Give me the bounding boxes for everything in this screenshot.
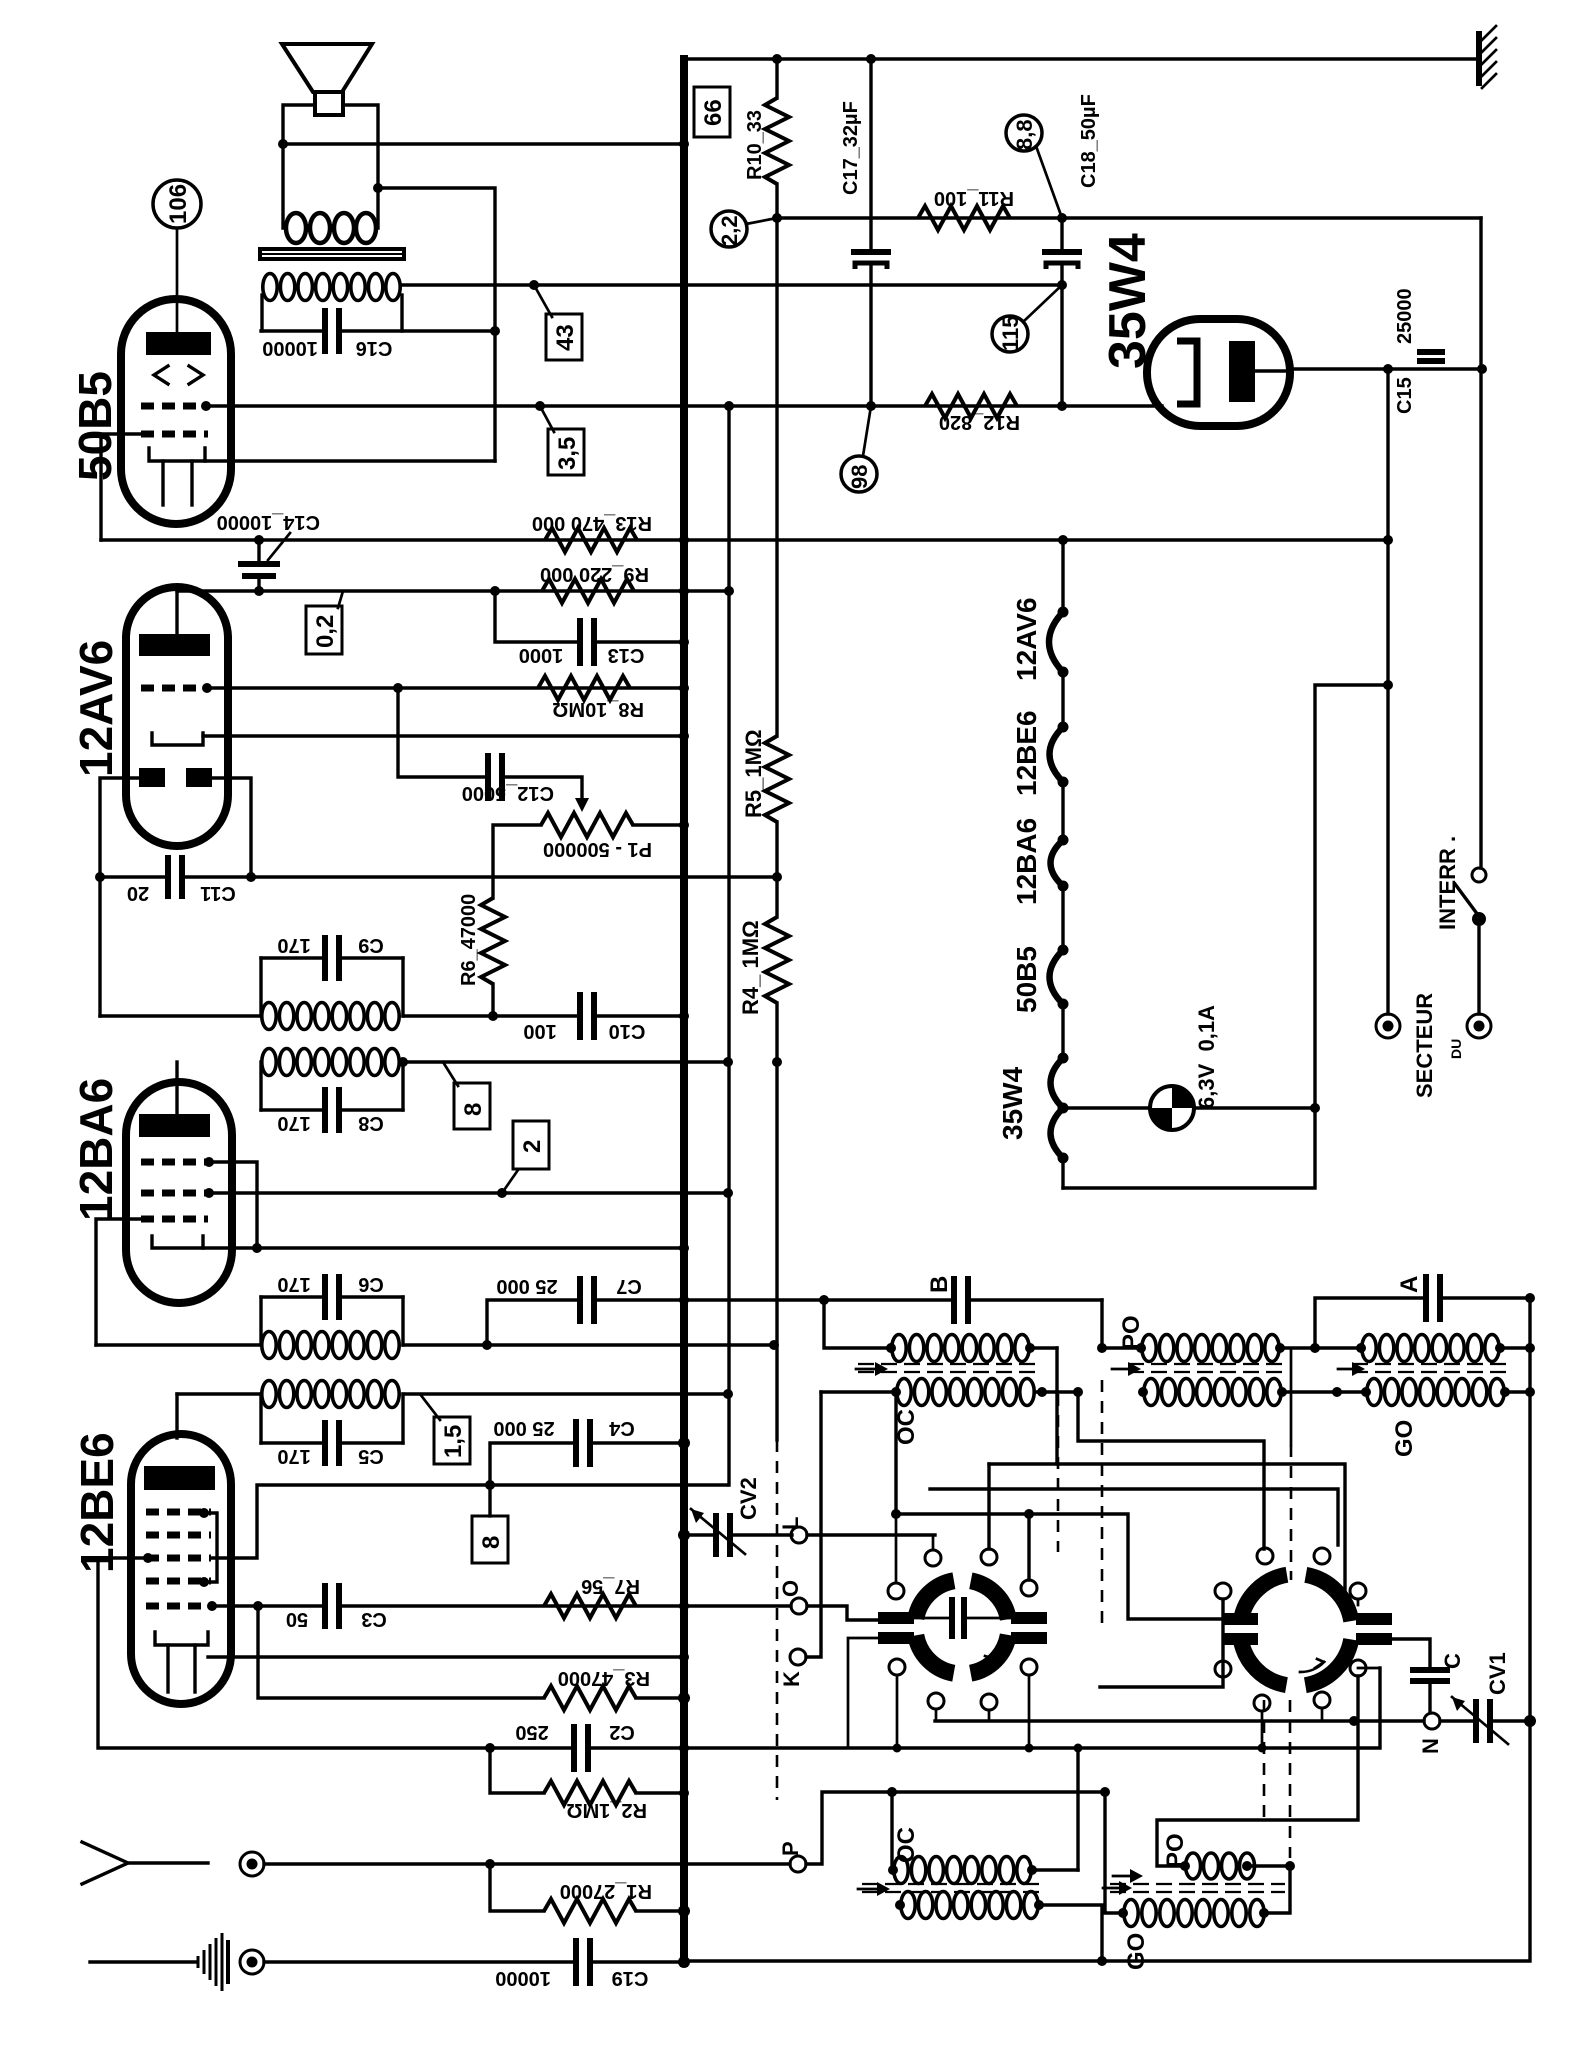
svg-text:8,8: 8,8 — [1012, 119, 1037, 150]
svg-text:CV2: CV2 — [736, 1477, 761, 1520]
wire secondary to bus (43 node) — [402, 283, 1062, 286]
speaker cone — [282, 44, 372, 92]
svg-text:8: 8 — [478, 1536, 505, 1549]
potentiometer P1 500000 — [541, 813, 633, 837]
svg-text:INTERR .: INTERR . — [1435, 836, 1460, 930]
capacitor C16 — [261, 329, 325, 332]
wire 12AV6 diode pins — [100, 778, 139, 1016]
transformer OC (RF) — [824, 1300, 889, 1348]
svg-text:R13_470 000: R13_470 000 — [532, 512, 652, 534]
svg-text:115: 115 — [998, 316, 1023, 352]
svg-text:1,5: 1,5 — [440, 1425, 467, 1458]
capacitor C17 32uF — [869, 59, 872, 250]
svg-text:C13: C13 — [608, 644, 645, 666]
capacitor C19 10000 — [264, 1960, 574, 1963]
svg-text:A: A — [1396, 1276, 1423, 1293]
svg-text:SECTEUR: SECTEUR — [1412, 993, 1437, 1098]
wire 35W4 output — [1255, 369, 1290, 372]
capacitor B (padder) — [684, 1298, 952, 1301]
transformer PO GO (oscillator) — [1105, 1792, 1123, 1913]
svg-text:R2_1MΩ: R2_1MΩ — [566, 1799, 647, 1821]
dashed tuning gang link — [775, 1062, 778, 1440]
svg-text:C14_10000: C14_10000 — [217, 511, 320, 533]
node 8,8 (voltage label) — [1006, 115, 1042, 151]
svg-text:10000: 10000 — [495, 1967, 551, 1989]
resistor R6 47000 — [491, 877, 494, 898]
svg-text:25 000: 25 000 — [496, 1275, 557, 1297]
resistor R13 470000 — [545, 528, 637, 552]
svg-text:C6: C6 — [358, 1273, 384, 1295]
svg-text:0,2: 0,2 — [312, 615, 339, 648]
capacitor C12 5000 — [398, 688, 486, 777]
node 115 (voltage label) — [992, 316, 1028, 352]
svg-text:P1 - 500000: P1 - 500000 — [543, 838, 652, 860]
rotary band switch S1 — [915, 1580, 1009, 1674]
wire bottom right rail — [684, 1298, 1530, 1961]
svg-text:170: 170 — [277, 1112, 310, 1134]
wire switch routing 2 — [896, 1514, 1222, 1619]
wire 12BE6 grid — [212, 1485, 727, 1558]
svg-text:25000: 25000 — [1394, 288, 1416, 344]
svg-text:C18_50µF: C18_50µF — [1078, 94, 1100, 188]
switch S2 contacts — [1215, 1583, 1231, 1599]
wire switch routing — [930, 1489, 1338, 1545]
switch S1 contacts — [925, 1550, 941, 1566]
main chassis bus — [680, 59, 688, 1963]
output transformer secondary coil — [263, 274, 400, 301]
svg-text:R3_47000: R3_47000 — [558, 1667, 650, 1689]
capacitor C5 170 with IF coil — [262, 1381, 399, 1408]
wire 50B5 screen to R13 node — [101, 434, 141, 540]
wire rectifier output line — [777, 216, 1481, 219]
svg-text:R6_47000: R6_47000 — [458, 894, 480, 986]
svg-text:25 000: 25 000 — [493, 1417, 554, 1439]
svg-text:R10_33: R10_33 — [744, 110, 766, 180]
tube 50B5 beam plates — [154, 366, 168, 384]
resistor R12 820 — [925, 394, 1017, 418]
node 0,2 (voltage label) — [338, 591, 343, 608]
tube 12AV6 diode plates — [139, 768, 165, 787]
svg-text:C4: C4 — [608, 1417, 634, 1439]
output transformer primary coil — [286, 213, 376, 243]
ground symbol and terminal — [90, 1960, 196, 1963]
svg-text:100: 100 — [523, 1020, 556, 1042]
svg-text:N: N — [1418, 1738, 1443, 1754]
svg-text:R1_27000: R1_27000 — [560, 1880, 652, 1902]
svg-text:C8: C8 — [358, 1112, 384, 1134]
svg-text:C9: C9 — [358, 934, 384, 956]
svg-text:12AV6: 12AV6 — [1011, 597, 1042, 681]
transformer core — [258, 247, 406, 261]
switch INTERR. — [1472, 868, 1486, 882]
svg-text:106: 106 — [165, 184, 192, 224]
svg-text:P: P — [778, 1841, 803, 1856]
wire PO transformer leads — [1283, 1346, 1359, 1349]
wire 12AV6 cathode — [203, 734, 684, 737]
resistor R2 1M — [490, 1748, 544, 1793]
wire 12BE6 plate — [175, 1394, 178, 1438]
terminal P — [684, 1862, 790, 1865]
svg-text:C3: C3 — [361, 1608, 387, 1630]
transformer GO (RF) — [1362, 1335, 1499, 1362]
capacitor C9 170 with IF coil — [259, 958, 262, 1016]
svg-text:C15: C15 — [1394, 377, 1416, 414]
svg-text:12BA6: 12BA6 — [70, 1078, 122, 1221]
terminal L — [730, 1533, 792, 1536]
svg-text:10000: 10000 — [262, 337, 318, 359]
variable capacitor CV2 — [684, 1533, 714, 1536]
svg-text:C16: C16 — [356, 337, 393, 359]
wire R13 node line — [101, 538, 1388, 541]
svg-text:2,2: 2,2 — [717, 215, 742, 246]
resistor R11 100 — [918, 206, 1010, 230]
svg-text:35W4: 35W4 — [997, 1066, 1028, 1140]
wire 50B5 cathode — [205, 459, 495, 462]
capacitor C15 25000 — [1417, 349, 1445, 355]
svg-text:1000: 1000 — [519, 644, 564, 666]
svg-text:R9_220 000: R9_220 000 — [540, 563, 649, 585]
tube 12BE6 — [131, 1434, 231, 1704]
terminal K — [790, 1649, 806, 1665]
wire 50B5 grid node 3,5 / 98V line — [208, 404, 1162, 407]
resistor R4 1M — [765, 917, 789, 1003]
svg-text:R5_1MΩ: R5_1MΩ — [741, 729, 766, 818]
dashed band switch links — [1057, 1394, 1060, 1552]
svg-text:43: 43 — [552, 324, 579, 351]
svg-text:L: L — [778, 1517, 803, 1530]
wire 12BA6 grid3 — [96, 1219, 141, 1345]
wire switch S2 connections — [1100, 1599, 1223, 1687]
svg-text:C7: C7 — [616, 1275, 642, 1297]
svg-text:12BE6: 12BE6 — [1011, 710, 1042, 796]
wire OC transformer leads — [821, 1390, 896, 1393]
tube 50B5 plate — [146, 332, 211, 355]
node 2,2 (voltage label) — [711, 211, 747, 247]
wire 12BA6 cathode — [203, 1246, 684, 1249]
capacitor C4 25000 — [490, 1443, 576, 1485]
svg-text:50B5: 50B5 — [1011, 946, 1042, 1013]
speaker magnet — [315, 92, 343, 115]
wire 98V distribution — [727, 406, 730, 1485]
resistor R5 1M — [765, 736, 789, 822]
svg-text:2: 2 — [519, 1140, 546, 1153]
svg-text:C10: C10 — [609, 1020, 646, 1042]
capacitor C10 100 and IF coil line — [100, 1014, 261, 1017]
svg-text:50B5: 50B5 — [69, 371, 121, 481]
transformer PO (RF) — [1142, 1335, 1279, 1362]
svg-text:12BE6: 12BE6 — [71, 1432, 123, 1573]
svg-text:CV1: CV1 — [1485, 1652, 1510, 1695]
svg-text:GO: GO — [1391, 1420, 1418, 1457]
capacitor C2 250 — [98, 1558, 490, 1748]
wire speaker frame to C16 node — [378, 188, 495, 461]
tube 50B5 grids — [141, 403, 208, 410]
svg-text:C17_32µF: C17_32µF — [840, 101, 862, 195]
node 106 (voltage label) — [153, 180, 201, 228]
svg-text:98: 98 — [847, 465, 872, 489]
svg-text:250: 250 — [515, 1721, 548, 1743]
tube 50B5 — [121, 299, 231, 524]
svg-text:C2: C2 — [609, 1721, 635, 1743]
tube 50B5 cathode — [149, 448, 205, 461]
SECTEUR DU terminals — [1376, 1014, 1400, 1038]
terminal N and variable capacitor CV1 — [935, 1719, 1424, 1722]
wire 12AV6 plate line — [177, 589, 684, 592]
resistor R10 33 — [775, 59, 778, 98]
wire speaker frame to chassis bus — [283, 142, 684, 145]
svg-text:C12_5000: C12_5000 — [462, 782, 554, 804]
node 8 (voltage label) — [488, 1485, 491, 1516]
tube 12BA6 — [126, 1082, 232, 1303]
node 98 (voltage label) — [841, 456, 877, 492]
wire C16 frame — [260, 295, 263, 331]
wire R9 to 98V line — [684, 589, 729, 592]
svg-text:12AV6: 12AV6 — [70, 640, 122, 777]
svg-text:C: C — [1440, 1653, 1465, 1669]
chassis hatch top right — [1479, 26, 1496, 88]
capacitor C18 50uF — [1060, 218, 1063, 250]
svg-text:R7_56: R7_56 — [581, 1575, 640, 1597]
wire to SECTEUR terminal — [1386, 369, 1389, 1014]
svg-text:170: 170 — [277, 1445, 310, 1467]
svg-text:O: O — [778, 1580, 803, 1597]
svg-text:B: B — [926, 1276, 953, 1293]
capacitor A (padder) — [1315, 1298, 1424, 1348]
svg-text:DU: DU — [1448, 1039, 1464, 1059]
svg-text:12BA6: 12BA6 — [1011, 818, 1042, 905]
svg-text:R4_ 1MΩ: R4_ 1MΩ — [738, 920, 763, 1015]
svg-text:R11_100: R11_100 — [934, 187, 1014, 209]
capacitor C8 170 with IF coil — [262, 1049, 399, 1076]
capacitor C11 20 (AVC line) — [100, 875, 168, 878]
svg-text:OC: OC — [893, 1827, 920, 1863]
heater chain 12AV6 12BE6 12BA6 50B5 35W4 — [1061, 540, 1064, 612]
svg-text:C19: C19 — [612, 1967, 649, 1989]
svg-text:C5: C5 — [358, 1445, 384, 1467]
svg-text:3,5: 3,5 — [554, 437, 581, 470]
coil lead beads — [886, 1343, 896, 1353]
pilot lamp 6,3V 0,1A — [1063, 1106, 1315, 1109]
svg-text:8: 8 — [460, 1103, 487, 1116]
svg-text:20: 20 — [127, 882, 149, 904]
capacitor C13 1000 — [495, 591, 578, 642]
resistor R3 47000 — [258, 1606, 544, 1698]
wire to R5 — [775, 218, 778, 736]
wire 12BA6 screen, node 2 — [208, 1191, 728, 1194]
resistor R9 220000 — [542, 579, 634, 603]
rotary band switch S2 — [1240, 1574, 1352, 1686]
wire 12BA6 grid1 to cathode — [208, 1162, 257, 1248]
capacitor C (trimmer) — [1392, 1639, 1430, 1668]
speaker frame — [283, 105, 315, 228]
transformer OC (oscillator) — [894, 1857, 1031, 1884]
svg-text:R12_820: R12_820 — [939, 411, 1020, 433]
terminal O — [684, 1604, 791, 1607]
node 43 (voltage label) — [534, 285, 552, 317]
wire 12BE6 cathode to K — [208, 1655, 684, 1658]
svg-text:C11: C11 — [200, 882, 236, 904]
svg-text:170: 170 — [277, 1273, 310, 1295]
wire right rail — [1479, 218, 1482, 868]
resistor R8 10M and grid wire — [206, 686, 684, 689]
svg-text:50: 50 — [286, 1608, 308, 1630]
antenna symbol and terminal — [82, 1842, 128, 1884]
svg-text:66: 66 — [700, 99, 727, 126]
capacitor C7 25000 — [487, 1300, 578, 1345]
capacitor C14 10000 — [257, 540, 260, 562]
wire 12BA6 plate / node 8 — [403, 1060, 728, 1063]
svg-text:K: K — [779, 1671, 804, 1687]
svg-text:R8_10MΩ: R8_10MΩ — [552, 698, 644, 720]
svg-text:6,3V 0,1A: 6,3V 0,1A — [1194, 1005, 1219, 1109]
capacitor C6 170 with IF coil — [261, 1295, 325, 1298]
svg-text:170: 170 — [277, 934, 310, 956]
top rail wire — [684, 57, 1478, 60]
svg-text:GO: GO — [1123, 1933, 1150, 1970]
capacitor C3 50 and resistor R7 56 — [211, 1604, 325, 1607]
wire B to PO — [1102, 1300, 1141, 1348]
node 66 (voltage label) — [694, 87, 730, 137]
